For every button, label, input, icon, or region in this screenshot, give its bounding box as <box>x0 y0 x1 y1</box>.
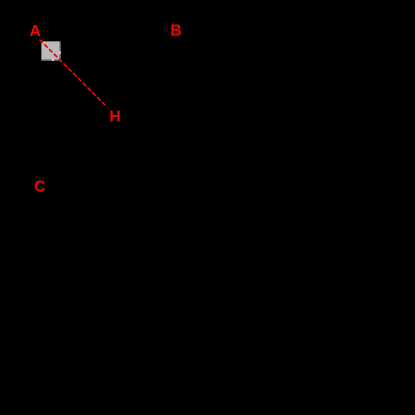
tick mark right edge <box>59 51 60 53</box>
svg-text:A: A <box>30 23 41 40</box>
svg-text:B: B <box>170 23 181 40</box>
altitude AH (red dashed line) <box>40 40 107 107</box>
tick mark bottom edge <box>52 59 54 60</box>
svg-text:C: C <box>34 179 45 196</box>
svg-text:H: H <box>109 109 120 126</box>
right-angle marker at A (gray square) <box>41 41 60 60</box>
